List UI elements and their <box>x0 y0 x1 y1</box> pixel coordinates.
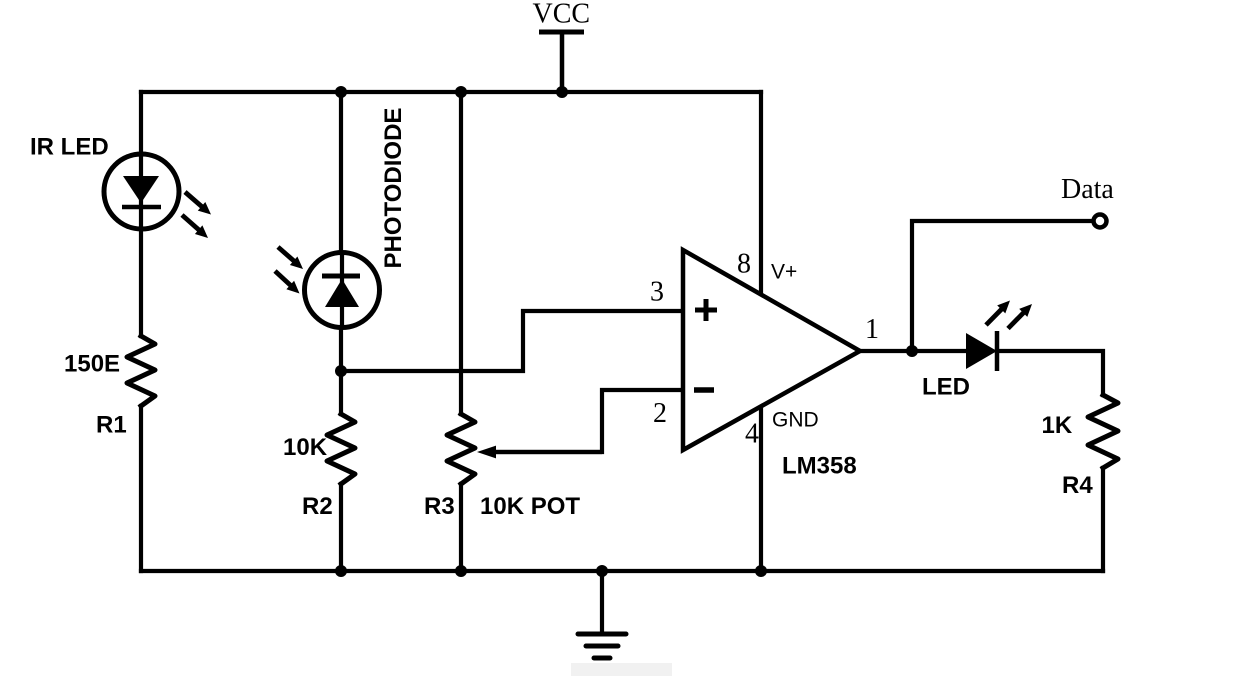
svg-text:4: 4 <box>745 419 759 450</box>
node output junction <box>906 345 918 357</box>
wire top rail <box>141 90 761 94</box>
svg-text:3: 3 <box>650 277 664 308</box>
wire photodiode branch <box>339 92 343 414</box>
node bottom rail ground junction <box>596 565 608 577</box>
svg-text:GND: GND <box>772 409 819 432</box>
plus input symbol <box>695 299 717 321</box>
svg-text:IR LED: IR LED <box>30 134 109 161</box>
svg-text:LED: LED <box>922 374 970 401</box>
svg-text:10K: 10K <box>283 434 328 461</box>
node bottom rail op-amp junction <box>755 565 767 577</box>
wire R3 to bottom rail <box>459 484 463 571</box>
wire noninverting input pin 3 <box>341 311 683 371</box>
node top rail photodiode junction <box>335 86 347 98</box>
wire pin 8 V+ <box>759 92 763 295</box>
wire LED to R4 <box>997 351 1103 395</box>
wire data branch <box>912 221 1091 351</box>
IR LED D1 <box>104 154 211 238</box>
photodiode D3 <box>275 247 380 328</box>
node top rail R3 junction <box>455 86 467 98</box>
wire left branch VCC rail to R1 <box>139 92 143 336</box>
svg-text:150E: 150E <box>64 351 120 378</box>
terminal Data <box>1094 215 1107 228</box>
wire R4 to bottom rail <box>1101 468 1105 571</box>
wire inverting input pin 2 <box>497 390 683 452</box>
wire pin 4 GND <box>759 406 763 571</box>
node bottom rail R3 junction <box>455 565 467 577</box>
ground symbol <box>578 634 626 658</box>
svg-text:10K POT: 10K POT <box>480 493 580 520</box>
svg-text:8: 8 <box>737 249 751 280</box>
svg-text:LM358: LM358 <box>782 453 857 480</box>
svg-text:1K: 1K <box>1042 412 1073 439</box>
LED D2 <box>966 301 1032 372</box>
wire op-amp output <box>860 349 966 353</box>
node photodiode output junction <box>335 365 347 377</box>
minus input symbol <box>694 387 714 393</box>
artifact gray strip <box>571 663 672 676</box>
svg-text:Data: Data <box>1061 174 1114 205</box>
wire R1 to bottom rail <box>139 406 143 571</box>
power VCC symbol <box>533 0 591 92</box>
wire ground stub <box>600 571 604 632</box>
svg-text:1: 1 <box>865 314 879 345</box>
wire R3 branch <box>459 92 463 414</box>
node bottom rail R2 junction <box>335 565 347 577</box>
resistor R4 <box>1088 395 1118 468</box>
resistor R1 <box>127 336 155 406</box>
potentiometer wiper arrow <box>477 446 602 459</box>
svg-text:R1: R1 <box>96 412 127 439</box>
svg-text:R4: R4 <box>1062 472 1093 499</box>
svg-text:VCC: VCC <box>533 0 591 30</box>
resistor R2 <box>327 414 355 484</box>
wire R2 to bottom rail <box>339 484 343 571</box>
svg-text:PHOTODIODE: PHOTODIODE <box>380 108 407 269</box>
resistor R3 <box>447 414 475 484</box>
svg-text:R2: R2 <box>302 493 333 520</box>
op-amp U1 LM358 <box>683 250 860 450</box>
node top rail VCC junction <box>556 86 568 98</box>
svg-text:V+: V+ <box>771 261 797 284</box>
svg-text:2: 2 <box>653 398 667 429</box>
wire bottom rail <box>141 569 1103 573</box>
svg-text:R3: R3 <box>424 493 455 520</box>
